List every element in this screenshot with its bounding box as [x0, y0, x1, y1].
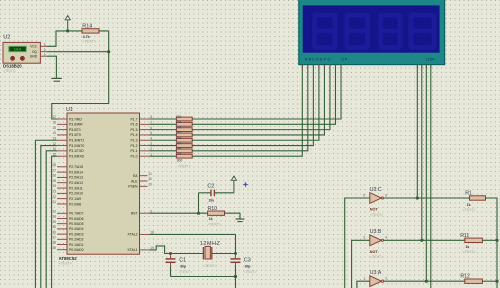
svg-text:5: 5 [363, 193, 365, 197]
NOT gate U3:A [370, 270, 384, 287]
svg-text:17: 17 [52, 115, 56, 119]
svg-text:XTAL1: XTAL1 [127, 248, 137, 252]
resistor R2 [149, 118, 176, 120]
junction crystal right / C3 [234, 252, 237, 255]
svg-text:31: 31 [148, 172, 152, 176]
svg-text:26: 26 [52, 174, 56, 178]
svg-text:U1: U1 [66, 107, 73, 113]
svg-text:C1: C1 [179, 257, 186, 263]
svg-text:P1.7: P1.7 [131, 117, 138, 121]
svg-text:P3.1/TXD: P3.1/TXD [69, 149, 84, 153]
svg-text:15: 15 [52, 126, 56, 130]
svg-text:<TEXT>: <TEXT> [203, 264, 216, 268]
junction ground rail [234, 275, 237, 278]
wire input to U3:B [352, 240, 370, 288]
svg-text:24: 24 [52, 184, 56, 188]
U1 XTAL1 pin 19 [127, 246, 154, 252]
svg-text:P3.6/WR: P3.6/WR [69, 123, 83, 127]
svg-text:28: 28 [52, 163, 56, 167]
wire input to U3:A [357, 281, 370, 288]
resistor R5 [149, 134, 176, 136]
svg-text:P2.5/A13: P2.5/A13 [69, 176, 83, 180]
junction U3:A / digit3 [425, 280, 428, 283]
display segment pin stubs [302, 65, 431, 69]
junction DQ node [107, 50, 110, 53]
wire U2 GND down [47, 56, 57, 78]
wires resistor pack to display segment pins [192, 65, 341, 157]
resistor R7 [149, 145, 176, 147]
svg-text:P0.2/AD2: P0.2/AD2 [69, 238, 84, 242]
svg-text:2: 2 [44, 48, 46, 52]
svg-text:P0.3/AD3: P0.3/AD3 [69, 232, 84, 236]
svg-text:27: 27 [52, 168, 56, 172]
wire crystal right segment [212, 253, 236, 255]
svg-text:NOT: NOT [370, 208, 379, 212]
wire digit 3 select [425, 65, 427, 282]
svg-text:21: 21 [52, 200, 56, 204]
NOT gate U3:C [370, 187, 384, 204]
svg-text:4: 4 [385, 236, 387, 240]
ground symbol (at R10) [236, 219, 245, 222]
svg-text:37: 37 [52, 236, 56, 240]
wire P3.3/INT1 to bottom edge [35, 140, 57, 288]
svg-text:1k: 1k [465, 245, 469, 249]
svg-text:6: 6 [385, 193, 387, 197]
wire P3.0/RXD to bottom edge [52, 156, 57, 288]
svg-text:P3.5/T1: P3.5/T1 [69, 128, 81, 132]
wire segment line [192, 65, 330, 130]
resistor R14 [82, 29, 99, 33]
resistor R1 [470, 196, 486, 200]
svg-text:U3:A: U3:A [370, 270, 382, 276]
svg-text:P3.4/T0: P3.4/T0 [69, 133, 81, 137]
svg-text:P1.6: P1.6 [131, 123, 138, 127]
wire XTAL1 to crystal left [149, 246, 203, 254]
svg-text:33: 33 [52, 215, 56, 219]
wire digit 4 select [430, 65, 432, 288]
svg-text:1k: 1k [209, 217, 213, 221]
svg-text:P0.0/AD0: P0.0/AD0 [69, 248, 84, 252]
wire segment line [192, 65, 335, 125]
wire ground rail under crystal [171, 276, 236, 278]
svg-text:R7: R7 [176, 140, 182, 145]
svg-text:P0.1/AD1: P0.1/AD1 [69, 243, 84, 247]
svg-text:P1.5: P1.5 [131, 128, 138, 132]
NOT gate U3:B [370, 229, 384, 246]
resistor R9 [149, 155, 176, 157]
svg-text:23: 23 [52, 190, 56, 194]
wire C3 node to bottom edge [235, 267, 237, 288]
svg-text:10u: 10u [208, 198, 214, 202]
svg-text:P3.7/RD: P3.7/RD [69, 117, 82, 121]
wire U3:B output to R11 [384, 239, 465, 241]
svg-text:34: 34 [52, 220, 56, 224]
svg-text:ABCDEFG: ABCDEFG [305, 58, 332, 62]
wire input to U3:C [345, 198, 370, 288]
svg-text:39: 39 [52, 246, 56, 250]
svg-text:32: 32 [52, 210, 56, 214]
ground symbol (under U2) [51, 78, 62, 81]
svg-text:P0.6/AD6: P0.6/AD6 [69, 217, 84, 221]
svg-text:<TEXT>: <TEXT> [178, 165, 191, 169]
wire R14 right down to DQ node [99, 31, 109, 52]
svg-text:P1.2: P1.2 [131, 144, 138, 148]
svg-text:P0.5/AD5: P0.5/AD5 [69, 222, 84, 226]
svg-text:AT89C52: AT89C52 [59, 256, 78, 261]
svg-text:ALE: ALE [131, 179, 138, 183]
wire U2 VCC to rail [47, 31, 82, 46]
U1 port P2 pins (left, pins 28-21) [52, 163, 83, 206]
wire segment line [192, 65, 341, 119]
svg-text:P2.3/A11: P2.3/A11 [69, 186, 83, 190]
svg-text:R3: R3 [176, 119, 182, 124]
svg-text:P2.6/A14: P2.6/A14 [69, 170, 83, 174]
wire U3:A output to R12 [384, 280, 465, 282]
junction U3:B / digit2 [420, 239, 423, 242]
capacitor C1 [166, 254, 187, 267]
svg-text:R8: R8 [176, 146, 182, 151]
svg-text:P1.4: P1.4 [131, 133, 138, 137]
power symbol (VCC arrow, top-left) [65, 15, 70, 30]
svg-text:R1: R1 [465, 190, 472, 196]
U2 pin stubs and numbers [40, 42, 46, 56]
U1 port P0 pins (left, pins 32-39) [52, 210, 83, 253]
svg-text:R2: R2 [176, 114, 182, 119]
svg-text:<TEXT>: <TEXT> [370, 213, 383, 217]
svg-text:P3.0/RXD: P3.0/RXD [69, 154, 85, 158]
U1 EA ALE PSEN pins (right, 31-29) [128, 172, 152, 189]
svg-text:U2: U2 [3, 35, 10, 41]
svg-text:<TEXT>: <TEXT> [462, 250, 475, 254]
svg-text:1: 1 [44, 52, 46, 56]
U1 port P3 pins (left, pins 17-10) [52, 115, 84, 158]
svg-text:22: 22 [52, 195, 56, 199]
wire U2 DQ to node [47, 51, 109, 53]
segment resistors R2-R9 pack [149, 114, 192, 158]
svg-text:4.7k: 4.7k [83, 35, 90, 39]
svg-text:P3.3/INT1: P3.3/INT1 [69, 139, 84, 143]
wire C1 to ground rail [170, 267, 172, 277]
svg-text:<TEXT>: <TEXT> [179, 270, 192, 274]
svg-text:P1.3: P1.3 [131, 139, 138, 143]
resistor R3 [149, 123, 176, 125]
wire U3:C output to R1 [384, 197, 470, 199]
svg-text:GND: GND [30, 55, 38, 59]
svg-text:30p: 30p [180, 265, 186, 269]
svg-text:<TEXT>: <TEXT> [59, 262, 72, 266]
svg-text:2: 2 [385, 277, 387, 281]
svg-text:P3.2/INT0: P3.2/INT0 [69, 144, 84, 148]
svg-text:NOT: NOT [370, 250, 379, 254]
junction rail / R12 [495, 280, 498, 283]
svg-text:DS18B20: DS18B20 [3, 63, 22, 68]
junction RST node [197, 212, 200, 215]
temperature sensor U2 DS18B20 [3, 35, 40, 64]
wire segment line [192, 65, 302, 157]
svg-text:P2.7/A15: P2.7/A15 [69, 165, 83, 169]
svg-text:<TEXT>: <TEXT> [462, 208, 475, 212]
svg-text:R11: R11 [460, 233, 469, 239]
junction crystal left / C1 [169, 252, 172, 255]
power symbol (VCC arrow at C2) [231, 176, 236, 193]
wire segment line [192, 65, 313, 146]
resistor R6 [149, 139, 176, 141]
svg-text:14.0: 14.0 [14, 48, 21, 52]
wire P3.2/INT0 to bottom edge [41, 146, 57, 288]
svg-text:VCC: VCC [30, 45, 37, 49]
wire XTAL2 to crystal right [149, 234, 235, 253]
svg-text:30p: 30p [245, 265, 251, 269]
wire R12 to common rail [482, 280, 497, 282]
wire R10 to ground [225, 213, 241, 219]
svg-text:R5: R5 [176, 130, 182, 135]
junction rail / R11 [495, 239, 498, 242]
wire P3.1/TXD to bottom edge [46, 151, 57, 288]
wire R11 to common rail [482, 239, 497, 241]
svg-text:<TEXT>: <TEXT> [83, 40, 96, 44]
svg-text:38: 38 [52, 241, 56, 245]
svg-text:XTAL2: XTAL2 [127, 233, 137, 237]
resistor R10 [208, 211, 225, 215]
svg-text:1: 1 [363, 277, 365, 281]
svg-text:P0.4/AD4: P0.4/AD4 [69, 227, 84, 231]
svg-text:C3: C3 [244, 257, 251, 263]
svg-text:25: 25 [52, 179, 56, 183]
svg-text:C2: C2 [207, 184, 214, 190]
svg-text:P0.7/AD7: P0.7/AD7 [69, 212, 84, 216]
svg-text:1k: 1k [467, 203, 471, 207]
svg-text:RST: RST [131, 212, 138, 216]
svg-text:R4: R4 [176, 124, 182, 129]
crystal X1 12MHZ [200, 241, 221, 260]
wire C2 branch down to RST [198, 193, 200, 213]
wire segment line [192, 65, 324, 135]
svg-text:P2.4/A12: P2.4/A12 [69, 181, 83, 185]
display digits [312, 13, 437, 51]
microcontroller U1 AT89C52 [66, 107, 140, 254]
resistor R4 [149, 129, 176, 131]
capacitor C2 [199, 184, 234, 197]
wire R1 to common rail [486, 198, 498, 288]
resistor R12 [465, 279, 483, 283]
svg-text:R9: R9 [176, 151, 182, 156]
svg-text:P1.0: P1.0 [131, 154, 138, 158]
resistor R8 [149, 150, 176, 152]
svg-text:300: 300 [177, 158, 183, 162]
svg-text:35: 35 [52, 225, 56, 229]
wire segment line [192, 65, 319, 141]
junction U3:C / digit1 [416, 196, 419, 199]
svg-text:P2.1/A9: P2.1/A9 [69, 197, 81, 201]
svg-text:16: 16 [52, 121, 56, 125]
svg-text:<TEXT>: <TEXT> [370, 255, 383, 259]
wire digit 1 select [416, 65, 418, 198]
U1 RST pin 9 [131, 209, 153, 215]
svg-text:DQ: DQ [32, 50, 37, 54]
svg-text:14: 14 [52, 131, 56, 135]
svg-text:36: 36 [52, 230, 56, 234]
sheet origin marker (blue cross) [242, 181, 248, 187]
U1 XTAL2 pin 18 [127, 231, 154, 237]
svg-text:P1.1: P1.1 [131, 149, 138, 153]
svg-text:EA: EA [133, 174, 138, 178]
svg-text:P2.2/A10: P2.2/A10 [69, 192, 83, 196]
wire segment line [192, 65, 308, 151]
U1 port P1 pins (right, pins 8-1) [131, 115, 153, 158]
svg-text:R10: R10 [208, 206, 217, 212]
svg-text:R12: R12 [460, 274, 470, 280]
capacitor C3 [231, 254, 251, 267]
svg-text:<TEXT>: <TEXT> [243, 270, 256, 274]
junction at power arrow [66, 29, 69, 32]
svg-text:U3:C: U3:C [370, 187, 382, 193]
svg-text:DP: DP [342, 57, 349, 61]
wire RST to R10 [149, 212, 207, 214]
wire digit 2 select [421, 65, 423, 241]
svg-text:3: 3 [363, 236, 365, 240]
svg-text:1234: 1234 [426, 57, 434, 61]
wire DQ node to U1 P3.7 [52, 52, 109, 119]
svg-text:<TEXT>: <TEXT> [208, 222, 221, 226]
svg-text:30: 30 [148, 177, 152, 181]
svg-text:P2.0/A8: P2.0/A8 [69, 202, 81, 206]
resistor R11 [465, 238, 483, 242]
svg-text:<TEXT>: <TEXT> [3, 69, 16, 73]
7-segment display (4 digit, blue) [299, 0, 445, 65]
svg-text:R14: R14 [82, 24, 92, 30]
svg-text:29: 29 [148, 183, 152, 187]
svg-text:R6: R6 [176, 135, 182, 140]
svg-text:3: 3 [44, 42, 46, 46]
svg-text:PSEN: PSEN [128, 185, 138, 189]
svg-text:U3:B: U3:B [370, 229, 382, 235]
